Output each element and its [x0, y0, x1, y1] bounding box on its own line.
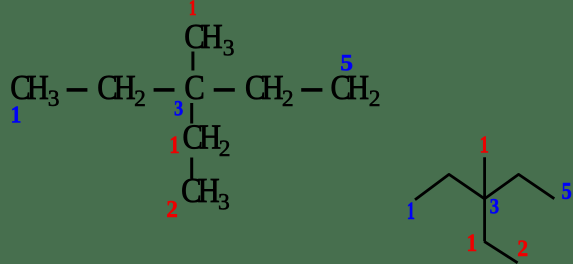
bond C to CH2 (ethyl branch): [190, 103, 193, 124]
skeletal left ethyl bond: [415, 174, 485, 199]
svg-text:1: 1: [480, 131, 489, 158]
svg-text:3: 3: [490, 195, 500, 219]
svg-text:3: 3: [223, 36, 235, 62]
svg-text:CH: CH: [331, 69, 369, 107]
svg-text:2: 2: [282, 86, 294, 112]
svg-text:2: 2: [134, 86, 146, 112]
skeletal right chain bond: [485, 174, 555, 198]
svg-text:3: 3: [48, 86, 60, 112]
bond C3-C4: [214, 88, 235, 92]
bond C2-C3: [154, 88, 175, 92]
bond C1-C2: [67, 88, 88, 92]
svg-text:5: 5: [562, 177, 572, 204]
svg-text:1: 1: [169, 131, 179, 159]
bond C4-C5: [301, 88, 322, 92]
svg-text:3: 3: [218, 190, 230, 216]
svg-text:CH: CH: [181, 172, 219, 210]
svg-text:CH: CH: [183, 119, 221, 157]
svg-text:1: 1: [466, 229, 477, 257]
svg-text:1: 1: [11, 100, 22, 127]
svg-text:3: 3: [174, 97, 183, 121]
skeletal vertical bond (methyl down through C3 to ethyl): [483, 157, 486, 241]
svg-text:CH: CH: [97, 69, 135, 107]
svg-text:2: 2: [166, 196, 178, 223]
svg-text:CH: CH: [245, 69, 283, 107]
svg-text:2: 2: [219, 136, 231, 162]
bond CH2 to CH3 (ethyl): [190, 158, 193, 179]
svg-text:2: 2: [517, 236, 528, 262]
svg-text:CH: CH: [184, 18, 222, 56]
svg-text:2: 2: [369, 86, 381, 112]
skeletal bottom ethyl diagonal bond: [484, 241, 517, 262]
svg-text:1: 1: [407, 197, 415, 225]
bond CH3(top) to C: [191, 52, 194, 71]
